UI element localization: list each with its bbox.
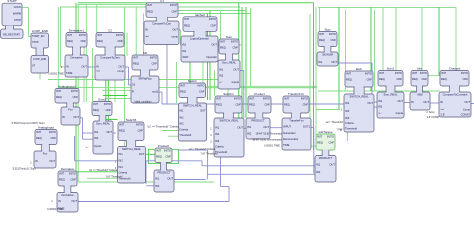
svg-text:Productf: Productf (158, 144, 169, 148)
wire vert x92 (92, 48, 94, 102)
wire vert x127 C2-SR (126, 33, 128, 56)
svg-text:IN: IN (96, 65, 99, 69)
svg-text:INITO: INITO (150, 55, 157, 59)
svg-text:RE_RESTART: RE_RESTART (3, 33, 20, 37)
svg-text:REQ: REQ (412, 77, 418, 81)
svg-text:INITO: INITO (170, 3, 177, 7)
svg-text:REQ: REQ (119, 129, 125, 133)
svg-text:Sum2: Sum2 (98, 98, 106, 102)
svg-text:IN: IN (58, 199, 61, 203)
svg-text:IN2: IN2 (155, 184, 160, 188)
block Sum1 (377, 67, 404, 119)
wire vert x310 (309, 14, 311, 146)
wire vert x143 (143, 14, 145, 56)
svg-text:IN2: IN2 (378, 105, 383, 109)
wire vert x316 (315, 7, 317, 135)
svg-text:'0.5513*sin(u1)' 'Expr: '0.5513*sin(u1)' 'Expr (12, 168, 36, 171)
svg-text:SIGNUM: SIGNUM (322, 52, 334, 56)
wire Sum2.OUT stub (113, 132, 116, 134)
block subTorque (315, 130, 336, 182)
svg-text:INIT: INIT (441, 71, 446, 75)
svg-text:OUT: OUT (233, 68, 239, 72)
svg-text:Charged: Charged (449, 67, 461, 71)
wire latch.OUT -> Sum1.IN1 (374, 101, 377, 103)
wire bus y90.6 (102, 90, 142, 92)
svg-text:AnalogInput1: AnalogInput1 (58, 85, 76, 89)
svg-text:REQ: REQ (97, 39, 103, 43)
wire Sum feeds (220, 11, 222, 40)
svg-text:INITO: INITO (301, 96, 308, 100)
wire latched to Switch (189, 63, 191, 84)
svg-text:OUT: OUT (200, 109, 206, 113)
svg-text:OUT: OUT (263, 125, 269, 129)
svg-text:'+-': '+-' (378, 111, 382, 115)
svg-text:REQ: REQ (147, 9, 153, 13)
svg-text:IN2: IN2 (215, 132, 220, 136)
svg-text:INIT: INIT (379, 71, 384, 75)
wire Sum1.OUT -> Abs.IN (404, 102, 410, 104)
svg-text:Derivative: Derivative (62, 193, 74, 197)
svg-text:Comp: Comp (463, 108, 471, 112)
wire Switch5 threshold (87, 177, 118, 179)
svg-text:R: R (132, 90, 134, 94)
svg-text:IN1: IN1 (316, 163, 321, 167)
svg-text:INIT: INIT (97, 33, 102, 37)
svg-text:INITO: INITO (395, 71, 402, 75)
svg-text:INIT: INIT (319, 32, 324, 36)
wire Sum.OUT drop (240, 70, 244, 72)
svg-text:'0.8' 'Threshold: '0.8' 'Threshold (201, 152, 218, 155)
wire Sign.OUT -> Sum1.IN2 (338, 62, 372, 64)
wire vert x319 (319, 7, 321, 32)
svg-text:CNF: CNF (199, 90, 205, 94)
wire loop bottom y86 (203, 85, 317, 87)
block Switch1 (214, 92, 244, 157)
block Derivative1 (65, 29, 88, 78)
wire AnalogInput1.OUT -> Sum2.IN1 (80, 117, 83, 119)
svg-text:TIME: TIME (283, 143, 290, 147)
svg-text:CNF: CNF (105, 108, 111, 112)
wire x202 -> subTorque.IN1 (201, 161, 203, 166)
svg-text:Sum_REAL: Sum_REAL (96, 121, 111, 125)
svg-text:Derivative1: Derivative1 (69, 29, 84, 33)
svg-text:Sum_REAL: Sum_REAL (383, 92, 398, 96)
svg-text:IN1: IN1 (94, 130, 99, 134)
svg-text:'u2 >= Threshold' 'Criteria: 'u2 >= Threshold' 'Criteria (89, 169, 118, 172)
svg-text:STOP: STOP (14, 18, 21, 22)
svg-text:CNF: CNF (366, 78, 372, 82)
svg-text:INITO: INITO (365, 71, 372, 75)
wire bus y95.5 bright (103, 95, 127, 97)
svg-text:CONST: CONST (461, 113, 471, 117)
svg-text:IN2: IN2 (316, 170, 321, 174)
wire top bus y7 right (318, 6, 456, 8)
wire Derivative2.OUT bottom loop (78, 201, 229, 203)
svg-text:REQ: REQ (93, 108, 99, 112)
wire vert x439 (438, 7, 440, 75)
wire vert x422 (421, 7, 423, 75)
svg-text:'+-': '+-' (85, 146, 89, 149)
svg-text:ABS: ABS (417, 92, 423, 96)
svg-text:IN1: IN1 (318, 60, 323, 64)
svg-text:INIT: INIT (133, 55, 138, 59)
svg-text:CNF: CNF (396, 77, 402, 81)
svg-text:WARM: WARM (13, 11, 21, 15)
svg-text:IN: IN (62, 115, 65, 119)
svg-text:REQ: REQ (67, 39, 73, 43)
svg-text:SRFlipFlop: SRFlipFlop (138, 76, 152, 80)
svg-text:CompareToCon: CompareToCon (152, 21, 171, 25)
svg-text:IN: IN (35, 159, 38, 163)
wire vert x105 bright (105, 36, 107, 120)
svg-text:INITO: INITO (231, 39, 238, 43)
svg-text:INITO: INITO (197, 83, 204, 87)
wire vert x84 (83, 36, 85, 102)
wire Productf INIT feed (138, 153, 155, 155)
svg-text:OUT: OUT (464, 100, 470, 104)
svg-text:IN2: IN2 (345, 109, 350, 113)
svg-text:'0.5513*cos(u1+0.0087)' 'Expr: '0.5513*cos(u1+0.0087)' 'Expr (11, 122, 44, 125)
svg-text:OUT: OUT (367, 101, 373, 105)
svg-text:IN: IN (440, 100, 443, 104)
svg-text:Switch1: Switch1 (223, 92, 234, 96)
svg-text:Fcn: Fcn (43, 151, 48, 155)
wire vert x136 (135, 7, 137, 55)
wire top bus y10 (150, 10, 246, 12)
svg-text:LogicalOperator: LogicalOperator (190, 36, 209, 40)
svg-text:REQ: REQ (249, 103, 255, 107)
svg-text:LOOP_END: LOOP_END (33, 58, 46, 61)
svg-text:OUT: OUT (73, 115, 79, 119)
svg-text:OUT: OUT (167, 177, 173, 181)
svg-text:INITO: INITO (49, 130, 56, 134)
svg-text:Sum_REAL: Sum_REAL (222, 60, 237, 64)
wire Productf CNF route (179, 149, 208, 151)
svg-text:OUT: OUT (71, 199, 77, 203)
block START (1, 0, 24, 38)
svg-text:Criteria: Criteria (119, 171, 128, 175)
svg-text:REQ: REQ (56, 95, 62, 99)
wire latch threshold stub (347, 133, 349, 142)
svg-text:REQ: REQ (133, 62, 139, 66)
svg-text:COLD: COLD (14, 5, 21, 9)
wire bus y98.5 (106, 98, 131, 100)
wire vert x250 (250, 8, 252, 86)
svg-text:TransferFcn: TransferFcn (289, 118, 304, 122)
svg-text:IN3: IN3 (215, 139, 220, 143)
svg-text:OUT: OUT (139, 152, 145, 156)
svg-text:Numerator: Numerator (283, 131, 296, 135)
svg-text:'u' Temp: 'u' Temp (426, 111, 435, 114)
svg-text:REQ: REQ (156, 155, 162, 159)
wire vert x207 (207, 14, 209, 101)
svg-text:initial_condition: initial_condition (134, 100, 152, 103)
svg-text:INIT: INIT (119, 122, 124, 126)
svg-text:IN2: IN2 (247, 132, 252, 136)
svg-text:OUT: OUT (423, 100, 429, 104)
svg-text:Sum: Sum (226, 35, 233, 39)
svg-text:comp: comp (117, 70, 124, 73)
svg-text:REQ: REQ (346, 78, 352, 82)
svg-text:IN2: IN2 (94, 136, 99, 140)
wire vert x456 (455, 7, 457, 75)
block Sum (218, 35, 240, 89)
wire Charged.OUT (471, 103, 474, 105)
wire Abs.OUT -> Charged.IN (430, 102, 439, 104)
svg-text:'<=': '<=' (96, 69, 101, 73)
svg-text:INIT: INIT (67, 33, 72, 37)
svg-text:IN3: IN3 (119, 165, 124, 169)
svg-text:C2: C2 (108, 29, 112, 33)
svg-text:SWITCH_REAL: SWITCH_REAL (219, 118, 239, 122)
svg-text:CNF: CNF (151, 62, 157, 66)
svg-text:IN1: IN1 (182, 42, 187, 46)
svg-text:'[8-4/T 51.8]' 'Numerator: '[8-4/T 51.8]' 'Numerator (256, 132, 283, 135)
wire top bus y13 (166, 13, 250, 15)
block Switch5 (118, 118, 146, 183)
wire vertical x78 (77, 5, 79, 182)
svg-text:INITO: INITO (79, 33, 86, 37)
wire Switch5 criteria (76, 171, 118, 173)
svg-text:PRODUCT: PRODUCT (251, 118, 265, 122)
svg-text:'[B-8/T 51.8]' 'Denominator: '[B-8/T 51.8]' 'Denominator (252, 138, 282, 141)
wire Productf.OUT -> subTorque.IN2 (174, 179, 206, 181)
svg-text:OUT1: OUT1 (303, 125, 311, 129)
svg-text:REQ: REQ (220, 46, 226, 50)
svg-text:IN1: IN1 (119, 152, 124, 156)
svg-text:INIT: INIT (317, 134, 322, 138)
svg-text:INIT: INIT (412, 71, 417, 75)
wire vert x246 (245, 7, 247, 118)
svg-text:CompareToConstant: CompareToConstant (443, 92, 468, 96)
svg-text:INITO: INITO (71, 89, 78, 93)
svg-text:CNF: CNF (72, 95, 78, 99)
wire loop bottom y88 (205, 87, 315, 89)
svg-text:OUT: OUT (106, 130, 112, 134)
block Product (246, 92, 271, 139)
block Sign (317, 28, 338, 67)
block TransferFcn (282, 92, 311, 150)
wire vert x58 (57, 7, 59, 89)
svg-text:INIT: INIT (346, 71, 351, 75)
wire vert x176 (176, 62, 178, 103)
block Abs (410, 67, 430, 111)
svg-text:INITO: INITO (116, 33, 123, 37)
svg-text:'1.8' CONST: '1.8' CONST (426, 116, 440, 119)
svg-text:IN: IN (145, 27, 148, 31)
svg-text:CNF: CNF (171, 9, 177, 13)
wire SR.Q -> latch.IN1 (159, 91, 162, 93)
wire vert x108 bright (107, 48, 109, 122)
svg-text:Fcn: Fcn (68, 107, 73, 111)
svg-text:INIT: INIT (56, 89, 61, 93)
svg-text:REQ: REQ (441, 77, 447, 81)
svg-text:CNF: CNF (165, 155, 171, 159)
svg-text:INPUT: INPUT (283, 125, 291, 129)
svg-text:CompareToZero: CompareToZero (100, 55, 120, 59)
wire latched out (218, 44, 242, 46)
svg-text:REQ: REQ (284, 103, 290, 107)
svg-text:Sum1: Sum1 (387, 67, 395, 71)
svg-text:CNF: CNF (421, 77, 427, 81)
svg-text:OUT: OUT (172, 27, 178, 31)
wire vert x86 (85, 5, 87, 102)
svg-text:SWITCH_REAL: SWITCH_REAL (122, 147, 142, 151)
wire latch feed y91 (318, 90, 440, 92)
block AnalogInput1 (55, 85, 80, 126)
svg-text:INIT: INIT (156, 148, 161, 152)
wire vert x76 bright (75, 3, 77, 172)
svg-text:OUT: OUT (397, 99, 403, 103)
svg-text:Inputs: Inputs (232, 80, 240, 84)
wire Switch1.OUT -> Product.IN1 (244, 127, 247, 129)
svg-text:Derivative: Derivative (71, 55, 83, 59)
svg-text:'0.8' 'Threshold: '0.8' 'Threshold (106, 176, 123, 179)
block AnalogInput (34, 126, 57, 169)
svg-text:INITO: INITO (209, 17, 216, 21)
svg-text:INIT: INIT (147, 3, 152, 7)
svg-text:INITO: INITO (461, 71, 468, 75)
svg-text:'u2 >= Threshold' 'Criteria: 'u2 >= Threshold' 'Criteria (147, 124, 179, 128)
svg-text:IN2: IN2 (219, 74, 224, 78)
svg-text:Sign: Sign (324, 28, 330, 32)
wire vert x115 (114, 36, 116, 102)
highlight Productf top (149, 149, 179, 163)
svg-text:CNF: CNF (235, 103, 241, 107)
block Derivative2 (57, 167, 78, 212)
svg-text:Inputs: Inputs (396, 111, 404, 115)
svg-text:SWITCH_REAL: SWITCH_REAL (183, 103, 203, 107)
svg-text:Threshold: Threshold (179, 133, 191, 137)
svg-text:'u2 > Threshold' 'Criteria: 'u2 > Threshold' 'Criteria (189, 148, 216, 151)
svg-text:INIT: INIT (249, 96, 254, 100)
svg-text:TransferFcn: TransferFcn (288, 92, 304, 96)
svg-text:Abs: Abs (417, 67, 423, 71)
svg-text:OUT: OUT (329, 163, 335, 167)
svg-text:INIT: INIT (59, 171, 64, 175)
svg-text:C1: C1 (160, 0, 164, 3)
svg-text:INITO: INITO (164, 148, 171, 152)
wire LOOP_END drop (39, 73, 41, 80)
wire C2.OUT -> SR.S1 (125, 66, 129, 68)
wire vert x339 (338, 7, 340, 109)
svg-text:IN3: IN3 (345, 116, 350, 120)
svg-text:TIME: TIME (66, 71, 73, 75)
wire C1 to latched (179, 29, 181, 31)
svg-text:Operator: Operator (206, 55, 217, 59)
svg-text:Criteria: Criteria (215, 145, 224, 149)
svg-text:STOP: STOP (32, 41, 39, 44)
svg-text:INIT: INIT (284, 96, 289, 100)
svg-text:Threshold: Threshold (345, 127, 357, 131)
svg-text:CNF: CNF (232, 46, 238, 50)
wire vert x228 (227, 89, 229, 96)
wire vert x167 blue (166, 44, 168, 104)
svg-text:IN1: IN1 (179, 109, 184, 113)
svg-text:CNF: CNF (330, 38, 336, 42)
svg-text:0.00001 TIME: 0.00001 TIME (47, 208, 63, 211)
svg-text:IN1: IN1 (215, 126, 220, 130)
svg-text:IN1: IN1 (378, 99, 383, 103)
wire vert x383 (382, 7, 384, 75)
svg-text:REQ: REQ (319, 38, 325, 42)
svg-text:INIT: INIT (184, 17, 189, 21)
svg-text:'AND': 'AND' (182, 55, 189, 59)
svg-text:CNF: CNF (80, 39, 86, 43)
svg-text:CNF: CNF (210, 23, 216, 27)
svg-text:CNF: CNF (137, 129, 143, 133)
svg-text:START: START (7, 0, 17, 3)
svg-text:CNF: CNF (50, 136, 56, 140)
svg-text:IN2: IN2 (119, 159, 124, 163)
svg-text:Product: Product (254, 92, 265, 96)
svg-text:Denominator: Denominator (283, 137, 298, 141)
block Productf (154, 144, 174, 192)
svg-text:INITO: INITO (329, 32, 336, 36)
svg-text:CNF: CNF (462, 77, 468, 81)
svg-text:OT: OT (32, 65, 36, 68)
svg-text:IN: IN (66, 65, 69, 69)
svg-text:IN1: IN1 (345, 101, 350, 105)
wire TransferFcn.OUT1 drop (311, 127, 314, 129)
svg-text:Inputs: Inputs (94, 144, 102, 148)
svg-text:'u2 > Threshold': 'u2 > Threshold' (325, 121, 343, 124)
wire vert x242 (241, 7, 243, 128)
svg-text:AnalogInput: AnalogInput (38, 126, 54, 130)
svg-text:S1: S1 (132, 82, 136, 86)
svg-text:REQ: REQ (180, 90, 186, 94)
wire vert x124 (124, 7, 126, 147)
svg-text:INITO: INITO (104, 102, 111, 106)
block Sum2 (92, 98, 113, 155)
svg-text:IN2: IN2 (179, 115, 184, 119)
svg-text:IN3: IN3 (179, 121, 184, 125)
svg-text:CNF: CNF (117, 39, 123, 43)
svg-text:'1.8': '1.8' (440, 113, 445, 117)
svg-text:INITO: INITO (69, 171, 76, 175)
svg-text:REQ: REQ (317, 141, 323, 145)
svg-text:Switch: Switch (188, 79, 197, 83)
svg-text:INITO: INITO (327, 134, 334, 138)
wire vert x371 (370, 7, 372, 91)
wire bus y87.6 (58, 87, 317, 89)
svg-text:'==': '==' (145, 35, 150, 39)
wire bus y79.5 (48, 79, 221, 81)
wire vert x210 (209, 11, 211, 101)
svg-text:CNF: CNF (302, 103, 308, 107)
svg-text:OUT: OUT (211, 42, 217, 46)
block Charged (439, 67, 471, 118)
svg-text:LOOP_END: LOOP_END (32, 29, 49, 33)
svg-text:IN1: IN1 (155, 177, 160, 181)
wire vert x396 (395, 7, 397, 75)
svg-text:OUT: OUT (81, 65, 87, 69)
block SR (131, 51, 159, 103)
svg-text:'>=': '>=' (440, 108, 445, 112)
svg-text:CNF: CNF (264, 103, 270, 107)
svg-text:INIT: INIT (36, 130, 41, 134)
svg-text:OUT: OUT (49, 159, 55, 163)
svg-text:outQ: outQ (152, 90, 158, 94)
svg-text:comp: comp (171, 36, 178, 39)
svg-text:Criteria: Criteria (345, 121, 354, 125)
svg-text:Switch5: Switch5 (126, 118, 137, 122)
block C1 (144, 0, 179, 45)
svg-text:'+-': '+-' (219, 80, 223, 84)
wire top bus y4.6 (77, 4, 157, 6)
svg-text:START_EO: START_EO (32, 35, 45, 38)
svg-text:REQ: REQ (36, 136, 42, 140)
